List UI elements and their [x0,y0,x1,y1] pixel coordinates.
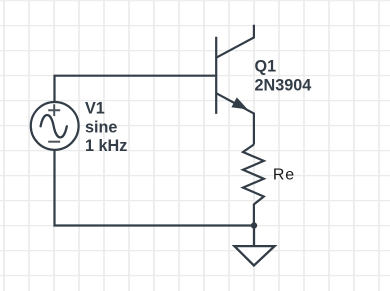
sine symbol [41,115,67,137]
voltage source V1 [31,102,79,150]
collector [216,25,254,58]
resistor Re [243,145,264,226]
emitter arrowhead [232,98,246,109]
svg-text:Q1: Q1 [255,58,277,76]
svg-text:Re: Re [273,167,295,184]
wire: base wire from V1 top to transistor base bar [55,76,216,103]
svg-text:sine: sine [85,119,117,137]
wire: bottom wire from V1 bottom to emitter node [55,150,255,226]
node junction dot [251,222,257,228]
svg-text:V1: V1 [85,100,105,118]
plus sign [48,104,60,116]
ground [234,226,274,266]
emitter [216,93,254,144]
svg-text:2N3904: 2N3904 [255,77,312,95]
minus sign [48,141,60,143]
svg-text:1 kHz: 1 kHz [85,137,127,155]
base bar [215,37,217,114]
transistor Q1 (NPN) [216,25,254,145]
